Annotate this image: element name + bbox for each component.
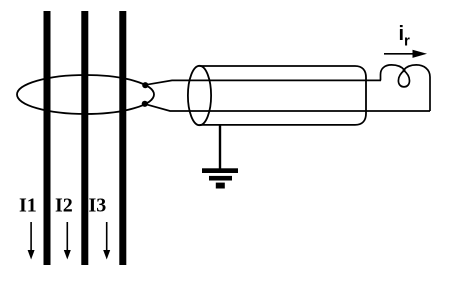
arrow ir [384, 50, 427, 58]
coax cable left end ellipse [188, 66, 211, 125]
measuring loop coil [381, 65, 431, 111]
coax cable shield body [200, 66, 367, 125]
node dot bottom secondary terminal [142, 101, 148, 107]
ground bar 1 [202, 168, 238, 173]
conductor bar L2 [81, 11, 88, 265]
svg-text:I1: I1 [19, 195, 37, 217]
svg-text:r: r [404, 33, 410, 50]
conductor bar L3 [119, 11, 126, 265]
svg-text:I2: I2 [55, 195, 73, 217]
wire top secondary lead [147, 80, 382, 84]
ground bar 2 [209, 176, 232, 181]
arrow I1 [28, 222, 35, 260]
arrow I3 [103, 222, 110, 260]
wire ground lead [219, 125, 221, 169]
node dot top secondary terminal [142, 82, 148, 88]
arrow I2 [64, 222, 71, 260]
svg-text:I3: I3 [89, 195, 107, 217]
ground bar 3 [216, 183, 225, 189]
conductor bar L1 [44, 11, 51, 265]
wire bottom secondary lead [146, 104, 430, 111]
CT core ellipse [17, 75, 154, 114]
